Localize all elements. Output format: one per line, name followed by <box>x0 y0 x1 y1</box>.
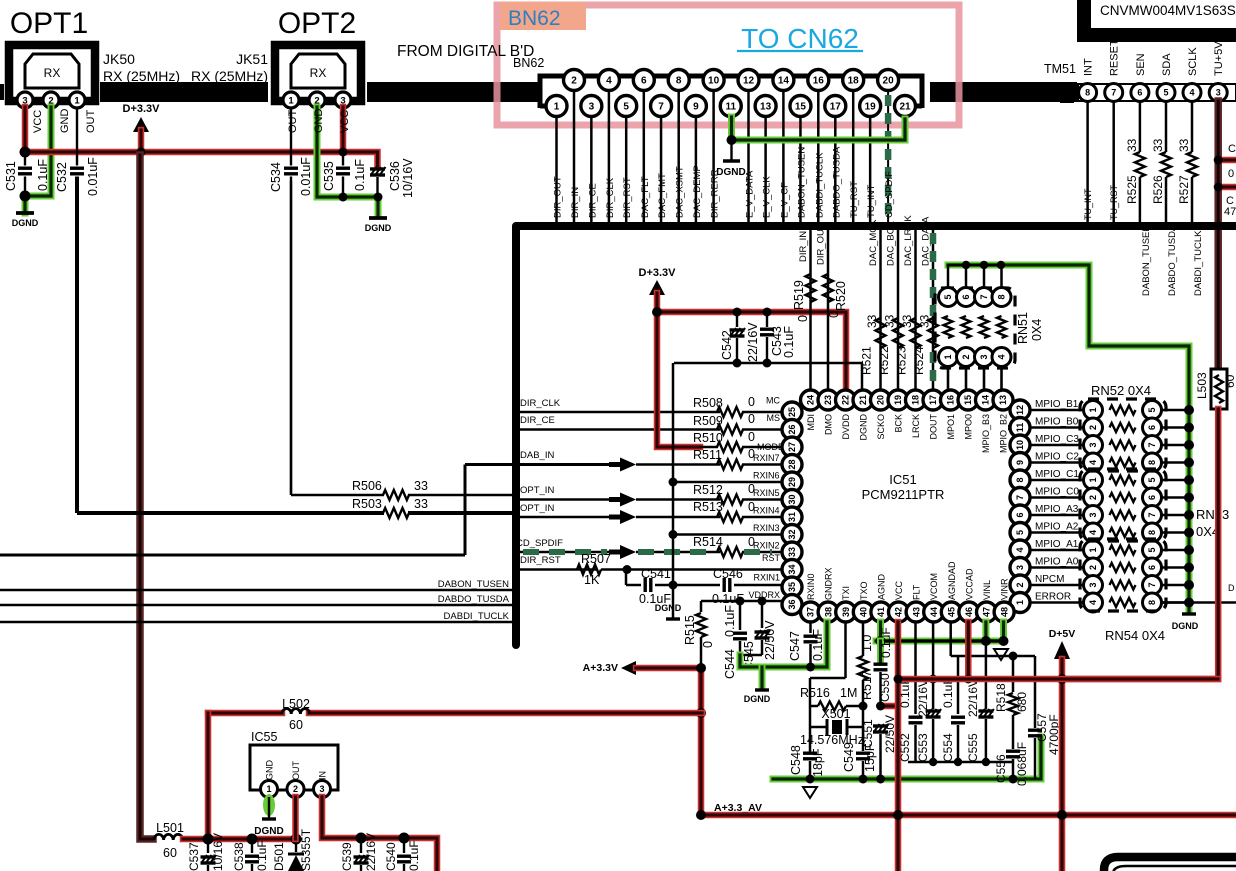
BN62 pin5 wire DIR_RST <box>625 117 628 222</box>
svg-text:36: 36 <box>787 599 797 609</box>
junction C541/C546/DGND <box>669 581 678 590</box>
net MPIO_C0 row <box>1030 496 1083 499</box>
svg-text:1: 1 <box>1088 547 1098 552</box>
svg-text:2: 2 <box>961 354 971 359</box>
net NPCM row <box>1030 584 1083 587</box>
IC51 pin 27 (MODE) <box>782 437 802 457</box>
IC51 pin 5 (MPIO_A2) <box>1010 523 1030 543</box>
svg-text:18: 18 <box>848 76 860 87</box>
svg-text:33: 33 <box>414 479 428 493</box>
junction D+3.3V / rail <box>137 148 146 157</box>
capacitor C531 <box>24 152 26 166</box>
svg-text:11: 11 <box>725 102 736 113</box>
svg-text:VCCAD: VCCAD <box>964 568 974 600</box>
svg-text:21: 21 <box>858 395 868 405</box>
svg-text:MPO0: MPO0 <box>964 414 974 440</box>
svg-text:R519: R519 <box>792 280 806 310</box>
BN62 pin 8 <box>668 70 689 91</box>
svg-text:4: 4 <box>1088 600 1098 605</box>
svg-text:RXIN0: RXIN0 <box>806 573 816 600</box>
BN62 pin 15 <box>790 96 811 117</box>
svg-text:33: 33 <box>1177 138 1191 152</box>
IC51 pin 8 (MPIO_C1) <box>1010 470 1030 490</box>
svg-text:13: 13 <box>760 102 772 113</box>
svg-text:R522: R522 <box>877 346 891 375</box>
svg-text:5: 5 <box>623 102 629 113</box>
DGND drop x673 <box>672 363 675 618</box>
BN62 pin 20 <box>878 70 899 91</box>
TM51 pin 5 (SDA) <box>1157 84 1175 102</box>
capacitor C536 (electrolytic) <box>370 167 385 170</box>
svg-text:0.1uF: 0.1uF <box>811 629 825 661</box>
JK51 pin 1 <box>283 92 299 108</box>
svg-text:60: 60 <box>1223 374 1236 388</box>
svg-text:AGND: AGND <box>876 573 886 600</box>
svg-text:MPIO_C3: MPIO_C3 <box>1035 434 1079 445</box>
IC51 pin 24 (MDI) <box>801 390 821 410</box>
svg-text:DABDO_TUSDA: DABDO_TUSDA <box>1167 224 1178 296</box>
junction C536 bottom <box>374 193 383 202</box>
BN62 pin1 wire DIR_OUT <box>555 117 558 222</box>
svg-text:C531: C531 <box>4 161 18 191</box>
svg-text:C539: C539 <box>340 842 354 871</box>
junction TU+5V stub1 <box>1218 157 1236 164</box>
svg-text:VINR: VINR <box>1000 578 1010 600</box>
resistor R521 33 on DAC_MCK <box>879 229 882 390</box>
svg-text:2: 2 <box>1088 495 1098 500</box>
svg-text:DABDI_TUCLK: DABDI_TUCLK <box>1193 230 1204 296</box>
svg-text:MPIO_C0: MPIO_C0 <box>1035 487 1079 498</box>
IC51 pin 4 (MPIO_A1) <box>1010 540 1030 560</box>
capacitor C543 0.1uF <box>766 312 768 327</box>
net ERROR row <box>1030 601 1083 604</box>
svg-text:C532: C532 <box>55 162 69 192</box>
resistor R522 33 on DAC_BCK <box>897 229 900 390</box>
OPT1 GND wire <box>25 107 51 213</box>
svg-text:C538: C538 <box>232 842 246 871</box>
svg-text:43: 43 <box>911 607 921 617</box>
svg-text:24: 24 <box>806 395 816 405</box>
svg-text:DIR_OUT: DIR_OUT <box>816 223 827 265</box>
capacitor C546 <box>723 578 726 592</box>
IC51 pin 3 (MPIO_A0) <box>1010 558 1030 578</box>
BN62 pin 16 <box>808 70 829 91</box>
svg-text:RESET: RESET <box>1109 39 1121 76</box>
BN62 pin15 wire DABON_TUSEN <box>799 117 802 222</box>
ground DGND (C545) <box>759 667 766 688</box>
svg-text:7: 7 <box>1147 512 1157 517</box>
power flag D+3.3V (left) <box>133 117 149 132</box>
left edge bus stub <box>0 84 4 100</box>
resistor R515 0 <box>700 601 703 612</box>
svg-text:R503: R503 <box>352 497 382 511</box>
IC55 pin 1 GND <box>261 781 278 798</box>
svg-text:L502: L502 <box>282 697 310 711</box>
svg-text:9: 9 <box>1015 460 1025 465</box>
svg-text:OPT_IN: OPT_IN <box>520 503 554 514</box>
junction L502 line <box>696 708 706 718</box>
cluster ground bus <box>908 761 1013 764</box>
svg-text:C541: C541 <box>641 567 671 581</box>
svg-text:DGND: DGND <box>1172 621 1199 631</box>
svg-text:DIR_IN: DIR_IN <box>570 187 581 218</box>
svg-text:TXO: TXO <box>859 581 869 600</box>
svg-text:R517: R517 <box>860 670 874 700</box>
RN54 element 1-5 <box>1084 541 1103 560</box>
svg-text:OPT_IN: OPT_IN <box>520 485 554 496</box>
svg-text:4: 4 <box>606 76 612 87</box>
BN62 pin16 wire DABDI_TUCLK <box>817 91 820 222</box>
svg-text:8: 8 <box>676 76 682 87</box>
net MPIO_C1 row <box>1030 479 1083 482</box>
svg-text:D+3.3V: D+3.3V <box>639 267 677 279</box>
svg-text:R521: R521 <box>860 346 874 375</box>
BN62 pin4 wire DIR_CLK <box>608 91 611 222</box>
OPT1 VCC wire (pin3 to +3.3 rail) <box>22 107 29 152</box>
main signal bus (thick) <box>516 226 1236 645</box>
svg-text:27: 27 <box>787 442 797 452</box>
resistor R517 1.0 <box>862 622 865 656</box>
svg-text:60: 60 <box>163 846 177 860</box>
RN51 resistor element 1 <box>947 265 950 289</box>
junction VCC/+5 rail <box>894 675 903 684</box>
svg-text:22/16V: 22/16V <box>966 679 980 717</box>
svg-text:DGND: DGND <box>744 694 771 704</box>
capacitor C550 0.1uF <box>877 641 884 661</box>
svg-text:1: 1 <box>74 95 80 106</box>
IC51 pin 29 (RXIN6) <box>782 472 802 492</box>
green AGND bus (cluster) <box>1009 775 1018 784</box>
svg-text:IC51: IC51 <box>889 472 916 487</box>
inductor L503 60 <box>1211 369 1227 409</box>
BN62 pin 6 <box>633 70 654 91</box>
svg-text:30: 30 <box>787 494 797 504</box>
svg-text:DIR_IN: DIR_IN <box>798 231 809 262</box>
svg-text:DGND: DGND <box>716 167 745 178</box>
junction IN rail x361 <box>356 833 367 844</box>
inductor L502 60 <box>282 709 310 714</box>
RN51 resistor element 4 <box>1000 265 1003 289</box>
svg-text:10/16V: 10/16V <box>401 158 415 198</box>
svg-text:AGNDAD: AGNDAD <box>947 561 957 600</box>
svg-text:D501: D501 <box>272 842 286 871</box>
BN62 pin13 wire E_V_CLK <box>764 117 767 222</box>
svg-text:DAC_LRCK: DAC_LRCK <box>903 215 914 266</box>
svg-text:40: 40 <box>859 607 869 617</box>
DABDO_TUSDA line <box>0 604 512 607</box>
svg-text:E_V_CF: E_V_CF <box>779 182 790 218</box>
BN62 pin 1 <box>546 96 567 117</box>
svg-text:DVDD: DVDD <box>841 414 851 440</box>
svg-text:33: 33 <box>883 314 897 328</box>
svg-text:22/16V: 22/16V <box>916 679 930 717</box>
svg-text:4: 4 <box>1088 530 1098 535</box>
svg-text:MPIO_B2: MPIO_B2 <box>999 414 1009 453</box>
IC51 pin 22 (DVDD) <box>836 390 856 410</box>
IC55 pin 2 OUT <box>287 781 304 798</box>
junction VDDRX caps <box>758 597 767 606</box>
svg-text:TU_INT: TU_INT <box>1083 188 1093 220</box>
capacitor C553 (electrolytic 22/16V) <box>926 709 941 712</box>
BN62 pin 17 <box>825 96 846 117</box>
IC51 pin 7 (MPIO_C0) <box>1010 488 1030 508</box>
BN62 pin 2 <box>564 70 585 91</box>
DIR_RST net line <box>519 568 596 571</box>
OPT2 GND wire <box>317 107 378 215</box>
capacitor C532 (series in OUT) <box>76 107 78 166</box>
junction RN bus row 11 <box>1184 580 1194 590</box>
svg-text:DOUT: DOUT <box>929 414 939 440</box>
svg-text:C549: C549 <box>842 742 856 772</box>
RN53 element 1-5 <box>1084 471 1103 490</box>
svg-text:DABON_TUSEN: DABON_TUSEN <box>796 147 807 218</box>
svg-text:20: 20 <box>883 76 895 87</box>
svg-text:RX: RX <box>44 66 61 80</box>
JK50 pin 1 <box>69 92 85 108</box>
svg-text:33: 33 <box>865 314 879 328</box>
pink highlight box around BN62 <box>497 5 959 125</box>
svg-text:TM51: TM51 <box>1044 62 1076 76</box>
RN54 element 2-6 <box>1084 558 1103 577</box>
svg-text:4: 4 <box>997 354 1007 359</box>
svg-text:RXIN6: RXIN6 <box>753 471 780 481</box>
svg-text:RXIN5: RXIN5 <box>753 488 780 498</box>
svg-text:DIR_CE: DIR_CE <box>520 415 555 426</box>
svg-text:12: 12 <box>743 76 755 87</box>
svg-text:0.1uF: 0.1uF <box>407 840 421 871</box>
svg-text:4: 4 <box>1015 547 1025 552</box>
red wire D+3.3V to MODE/DVDD <box>657 293 700 447</box>
svg-text:C546: C546 <box>713 567 743 581</box>
svg-text:29: 29 <box>787 477 797 487</box>
bus bar left of BN62 <box>420 82 538 102</box>
svg-text:BCK: BCK <box>894 414 904 433</box>
svg-text:12: 12 <box>1015 405 1025 415</box>
junction OPT2 VCC / rail <box>339 148 348 157</box>
capacitor C540 0.1uF <box>403 838 405 853</box>
svg-text:31: 31 <box>787 512 797 522</box>
svg-text:TU+5V: TU+5V <box>1213 41 1225 76</box>
svg-text:TU_RST: TU_RST <box>849 181 860 218</box>
svg-text:RXIN3: RXIN3 <box>753 523 780 533</box>
RN52 element 2-6 <box>1084 418 1103 437</box>
svg-text:MPIO_A2: MPIO_A2 <box>1035 522 1079 533</box>
svg-text:MPIO_B1: MPIO_B1 <box>1035 399 1079 410</box>
svg-text:VINL: VINL <box>982 580 992 600</box>
BN62 pin 18 <box>843 70 864 91</box>
svg-text:5: 5 <box>1147 477 1157 482</box>
svg-text:MS: MS <box>767 413 781 423</box>
svg-text:R506: R506 <box>352 479 382 493</box>
title block frame <box>1077 0 1091 42</box>
svg-text:3: 3 <box>589 102 595 113</box>
svg-text:32: 32 <box>787 529 797 539</box>
svg-text:IN: IN <box>318 771 328 780</box>
RN51 top tie bar <box>948 264 1001 266</box>
capacitor C545 (electrolytic 22/50V) <box>761 601 764 628</box>
svg-text:ERROR: ERROR <box>1035 592 1071 603</box>
svg-text:R511: R511 <box>693 448 722 462</box>
svg-text:18pF: 18pF <box>811 748 825 777</box>
bus bar left of TM51 <box>1060 82 1074 103</box>
bus bar right of BN62 <box>930 82 1077 102</box>
svg-text:15: 15 <box>963 395 973 405</box>
TU+5V red wire down right side <box>1214 101 1222 369</box>
svg-text:6: 6 <box>1137 88 1142 98</box>
svg-text:RX (25MHz): RX (25MHz) <box>191 68 268 84</box>
svg-text:C536: C536 <box>388 161 402 191</box>
capacitor C542 (electrolytic 22/16V) <box>736 312 738 327</box>
svg-text:R518: R518 <box>994 683 1008 712</box>
BN62 pin 9 <box>685 96 706 117</box>
svg-text:CD_SPDIF: CD_SPDIF <box>516 538 563 549</box>
svg-text:10/16V: 10/16V <box>211 833 225 871</box>
svg-text:E_V_DATA: E_V_DATA <box>745 170 756 218</box>
JK50 pin 2 <box>43 92 59 108</box>
svg-text:DABDO_TUSDA: DABDO_TUSDA <box>438 594 510 605</box>
capacitor C534 (series in OUT) <box>290 107 292 166</box>
inductor L501 60 <box>154 834 183 840</box>
L502 net line <box>208 710 282 717</box>
svg-text:7: 7 <box>1147 582 1157 587</box>
resistor R523 33 on DAC_LRCK <box>914 229 917 390</box>
junction RN bus row 7 <box>1184 510 1194 520</box>
RN53 element 3-7 <box>1084 506 1103 525</box>
svg-text:34: 34 <box>787 564 797 574</box>
svg-text:OUT: OUT <box>287 110 299 134</box>
svg-text:3: 3 <box>979 354 989 359</box>
svg-text:MODE: MODE <box>757 442 784 452</box>
IC51 pin 14 (MPIO_B3) <box>976 390 996 410</box>
svg-text:MC: MC <box>766 396 780 406</box>
svg-text:9: 9 <box>693 102 699 113</box>
svg-text:33: 33 <box>1151 138 1165 152</box>
svg-text:C555: C555 <box>966 733 980 762</box>
bus bar between OPT1 and OPT2 <box>100 82 268 102</box>
OPT_IN row to RXIN5 <box>519 498 620 501</box>
junction A+3.3 rail x701 <box>696 810 706 820</box>
svg-text:0.1uF: 0.1uF <box>723 605 737 637</box>
connector JK51 (OPT2) body <box>275 45 361 101</box>
svg-text:DAC_XSMT: DAC_XSMT <box>675 166 686 218</box>
IC51 pin 44 (VCOM) <box>924 602 944 622</box>
svg-text:41: 41 <box>876 607 886 617</box>
IC55 pin 3 IN <box>314 781 331 798</box>
wire pin44 VCOM down <box>932 622 935 709</box>
svg-text:0.1uF: 0.1uF <box>782 326 796 358</box>
junction C543 bottom <box>763 359 772 368</box>
BN62 pin7 wire DAC_FMT <box>660 117 663 222</box>
IC51 pin 6 (MPIO_A3) <box>1010 505 1030 525</box>
svg-text:0: 0 <box>748 395 755 409</box>
wire TXI to crystal <box>844 622 847 678</box>
RN54 element 4-8 <box>1084 593 1103 612</box>
junction RN bus row 9 <box>1184 545 1194 555</box>
svg-text:6: 6 <box>641 76 647 87</box>
svg-text:6: 6 <box>961 294 971 299</box>
DABON_TUSEN line <box>0 589 512 592</box>
junction RN bus row 6 <box>1184 493 1194 503</box>
long red feed down left side <box>140 155 153 839</box>
wire pin43 FLT down <box>914 622 917 714</box>
TM51 pin8 wire TU_INT <box>1086 101 1089 222</box>
svg-text:7: 7 <box>658 102 664 113</box>
adjacent block outline (bottom right) <box>1104 857 1236 871</box>
svg-text:BN62: BN62 <box>513 56 544 70</box>
junction A+3.3 stub <box>696 663 706 673</box>
analog ground triangle (crystal) <box>803 787 817 798</box>
svg-text:16: 16 <box>946 395 956 405</box>
svg-text:22/50V: 22/50V <box>763 620 777 660</box>
svg-text:DABON_TUSEN: DABON_TUSEN <box>438 579 509 590</box>
red jog C550 to VCC rail <box>881 703 898 710</box>
TM51 pin 8 (INT) <box>1079 84 1097 102</box>
svg-text:DGND: DGND <box>254 826 283 837</box>
svg-text:DGND: DGND <box>655 603 682 613</box>
BN62 pin 11 <box>720 96 741 117</box>
TM51 pin 3 (TU+5V) <box>1209 84 1227 102</box>
ground DGND (RN bus) <box>1182 612 1196 615</box>
wire pin45 AGNDAD down <box>949 622 952 656</box>
IC51 pin 9 (MPIO_C2) <box>1010 453 1030 473</box>
svg-text:1: 1 <box>1088 477 1098 482</box>
svg-text:DMO: DMO <box>824 414 834 435</box>
IC51 pin 31 (RXIN4) <box>782 507 802 527</box>
DAB_IN net line <box>465 463 620 466</box>
OPT_IN row to RXIN4 <box>519 516 620 519</box>
capacitor C538 0.1uF <box>251 839 253 853</box>
resistor R525 33 <box>1139 101 1142 152</box>
RN51 dashed border <box>935 288 1015 368</box>
svg-text:DABDO_TUSDA: DABDO_TUSDA <box>831 146 842 218</box>
svg-text:R526: R526 <box>1151 175 1165 204</box>
red wire IC55 OUT <box>292 797 299 839</box>
TM51 pin 6 (SEN) <box>1131 84 1149 102</box>
TM51 pin7 wire TU_RST <box>1112 101 1115 222</box>
capacitor C556 0.068uF <box>1006 750 1020 753</box>
svg-text:14: 14 <box>778 76 790 87</box>
ground DGND (OPT1) <box>16 211 34 215</box>
svg-text:SCLK: SCLK <box>1187 47 1199 76</box>
DGND return line y363 <box>674 362 862 365</box>
red wire IC55 IN <box>322 797 437 871</box>
svg-text:5: 5 <box>1015 530 1025 535</box>
JK51 pin 3 <box>335 92 351 108</box>
IC51 pin 16 (MPO1) <box>941 390 961 410</box>
salmon tag behind BN62 title <box>500 2 586 30</box>
analog ground triangle (bus end) <box>994 649 1008 660</box>
IC51 pin 33 (RXIN2) <box>782 542 802 562</box>
svg-text:C535: C535 <box>322 161 336 191</box>
BN62 pin14 wire E_V_CF <box>782 91 785 222</box>
RN54 dashed border <box>1080 539 1166 611</box>
svg-text:R527: R527 <box>1177 175 1191 204</box>
svg-text:19: 19 <box>893 395 903 405</box>
svg-text:14: 14 <box>981 395 991 405</box>
svg-text:0.1uF: 0.1uF <box>353 159 367 191</box>
svg-text:0: 0 <box>827 311 841 318</box>
green AGND bus (crystal) <box>773 737 1041 779</box>
net MPIO_A1 row <box>1030 549 1083 552</box>
TM51 pin row outline <box>1078 84 1236 101</box>
junction TU+5V stub2 <box>1218 184 1236 191</box>
svg-text:8: 8 <box>1015 477 1025 482</box>
svg-text:INT: INT <box>1083 58 1095 76</box>
capacitor C537 (electrolytic) <box>207 839 209 853</box>
resistor R524 33 on DAC_DATA <box>932 229 935 390</box>
red +3.3 rail across OPT connectors <box>25 152 378 166</box>
junction L501 rail x296 <box>291 834 302 845</box>
